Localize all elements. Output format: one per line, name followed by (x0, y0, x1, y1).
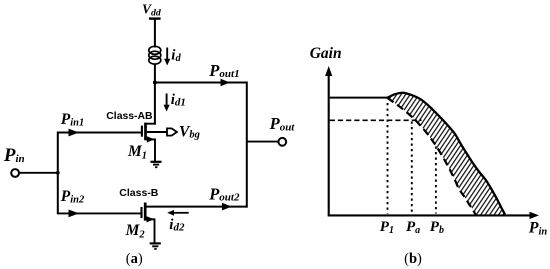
label Class-AB (106, 111, 153, 122)
wire Pout stub (247, 141, 278, 143)
gain curve flat segment (330, 97, 388, 99)
label Vdd (142, 2, 162, 19)
label Pout (269, 114, 296, 133)
wire Pin to bus (19, 172, 58, 174)
label M1 (127, 143, 147, 162)
ground for M1 (151, 162, 162, 167)
hatched region (387, 93, 505, 215)
svg-text:(a): (a) (126, 251, 143, 267)
current arrow id1 (164, 94, 170, 112)
x-axis (328, 212, 539, 219)
label Pout2 (208, 185, 240, 204)
dashed horizontal gain level line (330, 119, 422, 121)
label Class-B (119, 187, 159, 199)
svg-text:Class-B: Class-B (119, 187, 159, 199)
label id2 (169, 217, 185, 234)
current arrow id2 (167, 210, 189, 216)
dotted vertical line Pa (411, 122, 413, 214)
label M2 (125, 222, 146, 241)
wire Pout2 (drain of M2) (146, 203, 247, 211)
label Gain (310, 45, 342, 62)
current arrow id (164, 48, 170, 66)
junction dot on bus (56, 171, 60, 175)
Vdd terminal bar (149, 17, 161, 19)
wire input branch 1 with arrow (58, 129, 141, 137)
dashed gain curve (387, 98, 475, 215)
dotted vertical line P1 (387, 103, 389, 214)
label Vbg (179, 123, 200, 140)
label id1 (171, 92, 186, 109)
caption (a) (126, 251, 143, 267)
ground for M2 (150, 243, 161, 249)
output terminal circle Pout (278, 138, 286, 146)
input terminal circle Pin (11, 169, 19, 177)
output combining vertical wire (246, 82, 248, 208)
input bus vertical wire (57, 132, 59, 215)
label Pin x-axis (528, 220, 548, 238)
label Pout1 (208, 61, 239, 80)
node junction dot (153, 81, 157, 85)
label P1 (380, 219, 394, 236)
port symbol Vbg (167, 128, 177, 135)
label Pb (430, 219, 444, 236)
svg-text:(b): (b) (404, 251, 422, 267)
inductor L1 (149, 46, 161, 64)
y-axis (325, 66, 332, 216)
wire inductor to drain node (154, 65, 156, 125)
label Pin (3, 145, 25, 166)
wire Vdd to inductor (154, 19, 156, 48)
svg-text:Class-AB: Class-AB (106, 111, 153, 122)
label id (171, 48, 181, 65)
svg-text:Gain: Gain (310, 45, 342, 62)
transistor M1 (142, 123, 167, 162)
label Pin1 (61, 111, 84, 128)
label Pa (406, 219, 420, 236)
wire input branch 2 with arrow (58, 210, 141, 218)
solid gain curve (387, 93, 505, 215)
wire Pout1 (155, 79, 247, 87)
label Pin2 (61, 188, 85, 205)
dotted vertical line Pb (435, 147, 437, 214)
caption (b) (404, 251, 422, 267)
transistor M2 (142, 203, 156, 244)
